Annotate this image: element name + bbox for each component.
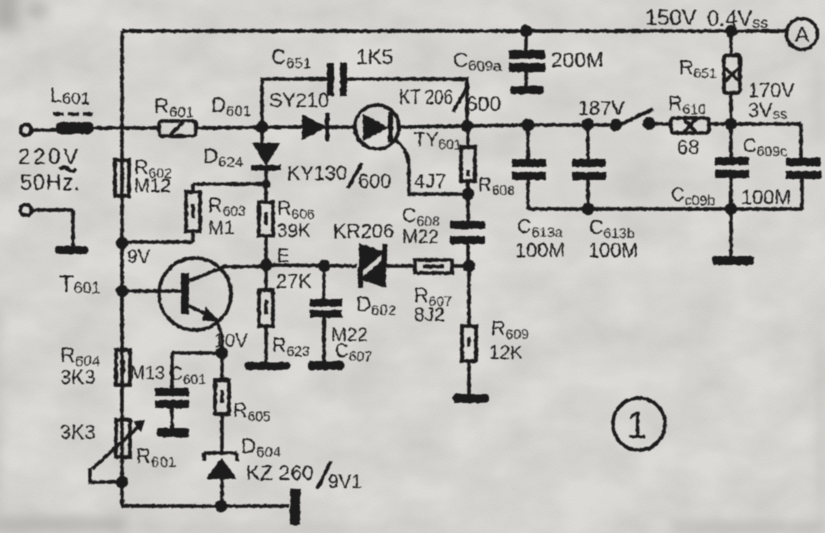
svg-text:27K: 27K bbox=[276, 271, 312, 293]
node D604 bottom junction bbox=[215, 500, 227, 512]
svg-text:4J7: 4J7 bbox=[414, 171, 446, 193]
wire L601 to R601 bbox=[93, 126, 158, 130]
node E junction bbox=[260, 259, 272, 271]
capacitor C601 bbox=[155, 388, 189, 437]
node gate junction bbox=[462, 188, 474, 200]
node R651 bottom junction bbox=[725, 118, 737, 130]
svg-text:600: 600 bbox=[466, 93, 501, 116]
resistor R602 bbox=[115, 160, 129, 196]
node top C609a junction bbox=[520, 25, 532, 37]
node R603 tap junction bbox=[262, 180, 271, 189]
capacitor C609b bbox=[715, 124, 749, 209]
svg-text:8J2: 8J2 bbox=[414, 305, 445, 326]
switch blade bbox=[617, 109, 653, 126]
ground chassis bar right bbox=[712, 256, 754, 265]
svg-text:A: A bbox=[795, 22, 810, 47]
resistor R623 bbox=[259, 265, 273, 362]
node top R651 junction bbox=[725, 25, 737, 37]
svg-text:12K: 12K bbox=[489, 343, 523, 364]
diac D602 KR206 bbox=[358, 243, 387, 288]
potentiometer R601 3K3 bbox=[90, 420, 145, 482]
resistor R606 bbox=[259, 202, 273, 236]
resistor R605 bbox=[215, 380, 229, 414]
svg-text:9V: 9V bbox=[127, 247, 151, 268]
wire D624 to node E bbox=[264, 170, 268, 265]
wire R603 top link bbox=[193, 184, 266, 192]
resistor R609 bbox=[462, 266, 476, 394]
resistor R607 bbox=[415, 260, 469, 273]
svg-text:M22: M22 bbox=[402, 227, 439, 248]
node C609b bottom junction bbox=[725, 203, 737, 215]
wire R601 to node D601 bbox=[196, 127, 302, 128]
node thyristor cathode junction bbox=[461, 120, 473, 132]
svg-text:50Hz.: 50Hz. bbox=[20, 170, 80, 195]
svg-text:3K3: 3K3 bbox=[60, 367, 96, 389]
capacitor C608 bbox=[450, 194, 485, 266]
svg-text:170V: 170V bbox=[748, 80, 795, 102]
svg-text:9V1: 9V1 bbox=[328, 472, 362, 493]
branch C651 snubber wire bbox=[262, 79, 467, 127]
svg-text:M1: M1 bbox=[208, 218, 234, 239]
svg-text:220V: 220V bbox=[18, 144, 78, 169]
wire node E line bbox=[266, 265, 415, 266]
ground chassis bar bottom bbox=[290, 489, 300, 525]
svg-text:150V: 150V bbox=[645, 5, 697, 30]
wire switch to R610 bbox=[651, 122, 672, 126]
node R607 right junction bbox=[463, 260, 475, 272]
switch contacts bbox=[610, 119, 622, 131]
resistor R601 fusible bbox=[159, 121, 196, 136]
resistor R651 fusible bbox=[724, 31, 740, 124]
svg-text:1: 1 bbox=[626, 405, 647, 447]
wire emitter down bbox=[220, 353, 224, 453]
wire collector to node E bbox=[223, 265, 266, 269]
svg-text:100M: 100M bbox=[588, 240, 638, 262]
terminal live bbox=[21, 125, 32, 136]
svg-text:10V: 10V bbox=[214, 331, 248, 352]
node D601 junction bbox=[256, 121, 268, 133]
wire R610 to corner bbox=[709, 122, 801, 126]
resistor R610 fusible bbox=[671, 118, 709, 133]
wire to chassis bbox=[729, 209, 733, 256]
node C613a junction bbox=[522, 119, 534, 131]
svg-text:600: 600 bbox=[358, 171, 391, 193]
node C607 junction bbox=[318, 260, 330, 272]
svg-text:KT 206: KT 206 bbox=[399, 86, 453, 109]
svg-text:100M: 100M bbox=[741, 187, 791, 209]
svg-text:187V: 187V bbox=[578, 98, 625, 120]
svg-text:KY130: KY130 bbox=[287, 163, 347, 185]
svg-text:3K3: 3K3 bbox=[60, 422, 96, 444]
resistor R604 bbox=[116, 291, 130, 385]
wire live lead bbox=[32, 128, 57, 132]
capacitor C613a bbox=[512, 125, 546, 209]
wire diode to thyristor bbox=[329, 125, 356, 129]
capacitor C651 bbox=[327, 63, 347, 96]
svg-text:39K: 39K bbox=[277, 221, 311, 242]
diode D601 SY210 bbox=[302, 113, 330, 141]
capacitor C609c bbox=[786, 124, 821, 209]
resistor R603 bbox=[186, 192, 200, 231]
svg-text:68: 68 bbox=[677, 137, 699, 159]
node C613b junction bbox=[582, 118, 594, 130]
capacitor C609a bbox=[509, 31, 545, 94]
wire R603 bottom link bbox=[122, 231, 193, 242]
svg-text:KR206: KR206 bbox=[333, 221, 394, 243]
wire neutral lead bbox=[32, 210, 73, 246]
wire bottom mid line bbox=[528, 207, 802, 211]
svg-text:1K5: 1K5 bbox=[356, 46, 393, 69]
ground bar below R609 bbox=[453, 394, 489, 403]
wire base from rail bbox=[122, 289, 181, 293]
capacitor C613b bbox=[572, 125, 606, 210]
node emitter 10V junction bbox=[216, 347, 228, 359]
svg-text:100M: 100M bbox=[515, 240, 565, 262]
resistor R608 bbox=[461, 126, 475, 194]
transistor T601 bbox=[159, 258, 231, 353]
svg-text:SY210: SY210 bbox=[269, 90, 329, 112]
node rail 9V junction bbox=[116, 237, 128, 249]
meter terminal A bbox=[787, 19, 818, 50]
figure number 1 bbox=[613, 398, 665, 450]
diode D624 KY130/600 bbox=[251, 127, 281, 171]
zener D604 KZ260/9V1 bbox=[204, 453, 237, 506]
ground bar below R623 bbox=[245, 362, 290, 370]
node base rail junction bbox=[116, 285, 128, 297]
inductor L601 bbox=[56, 122, 93, 134]
wire 187V line bbox=[467, 125, 616, 126]
node pot wiper junction bbox=[116, 476, 128, 488]
svg-text:200M: 200M bbox=[551, 49, 604, 72]
svg-text:KZ 260: KZ 260 bbox=[246, 462, 314, 485]
svg-text:M12: M12 bbox=[134, 176, 171, 197]
svg-text:M13: M13 bbox=[130, 363, 165, 383]
thyristor TY601 KT206/600 bbox=[355, 105, 399, 149]
capacitor C607 bbox=[308, 266, 344, 370]
wire top rail 150V bbox=[122, 29, 786, 33]
wire bottom bbox=[122, 504, 289, 508]
ground chassis bar neutral bbox=[55, 246, 88, 254]
svg-text:E: E bbox=[277, 246, 290, 267]
node C613b bottom junction bbox=[582, 203, 594, 215]
wire thyristor cathode to node bbox=[399, 126, 466, 127]
branch C601 bbox=[172, 353, 222, 388]
wire thyristor gate bbox=[395, 139, 468, 194]
wire left rail bbox=[120, 31, 124, 506]
terminal neutral bbox=[21, 205, 32, 216]
